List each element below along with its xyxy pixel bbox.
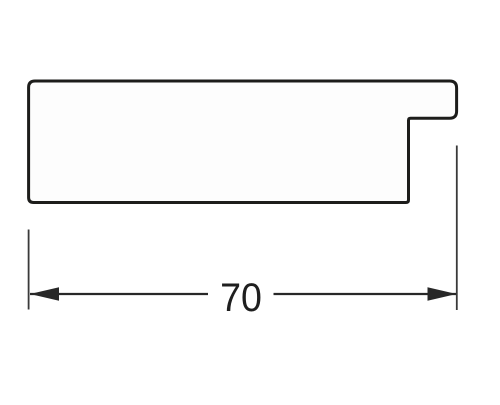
dimension text 70	[220, 276, 262, 320]
dimension line left segment	[30, 293, 208, 295]
left arrowhead	[30, 287, 59, 301]
dimension line right segment	[274, 293, 457, 295]
profile cross-section outline	[29, 81, 457, 203]
right arrowhead	[428, 287, 457, 301]
left extension line	[28, 230, 30, 310]
svg-text:70: 70	[220, 276, 262, 320]
right extension line	[456, 146, 458, 311]
